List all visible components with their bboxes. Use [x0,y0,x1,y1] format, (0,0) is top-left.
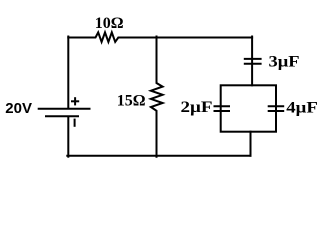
svg-text:10Ω: 10Ω [95,15,124,32]
svg-text:2μF: 2μF [181,99,213,116]
svg-text:3μF: 3μF [269,54,300,71]
svg-text:15Ω: 15Ω [117,92,146,109]
svg-text:4μF: 4μF [286,99,318,116]
svg-text:20V: 20V [5,100,32,117]
